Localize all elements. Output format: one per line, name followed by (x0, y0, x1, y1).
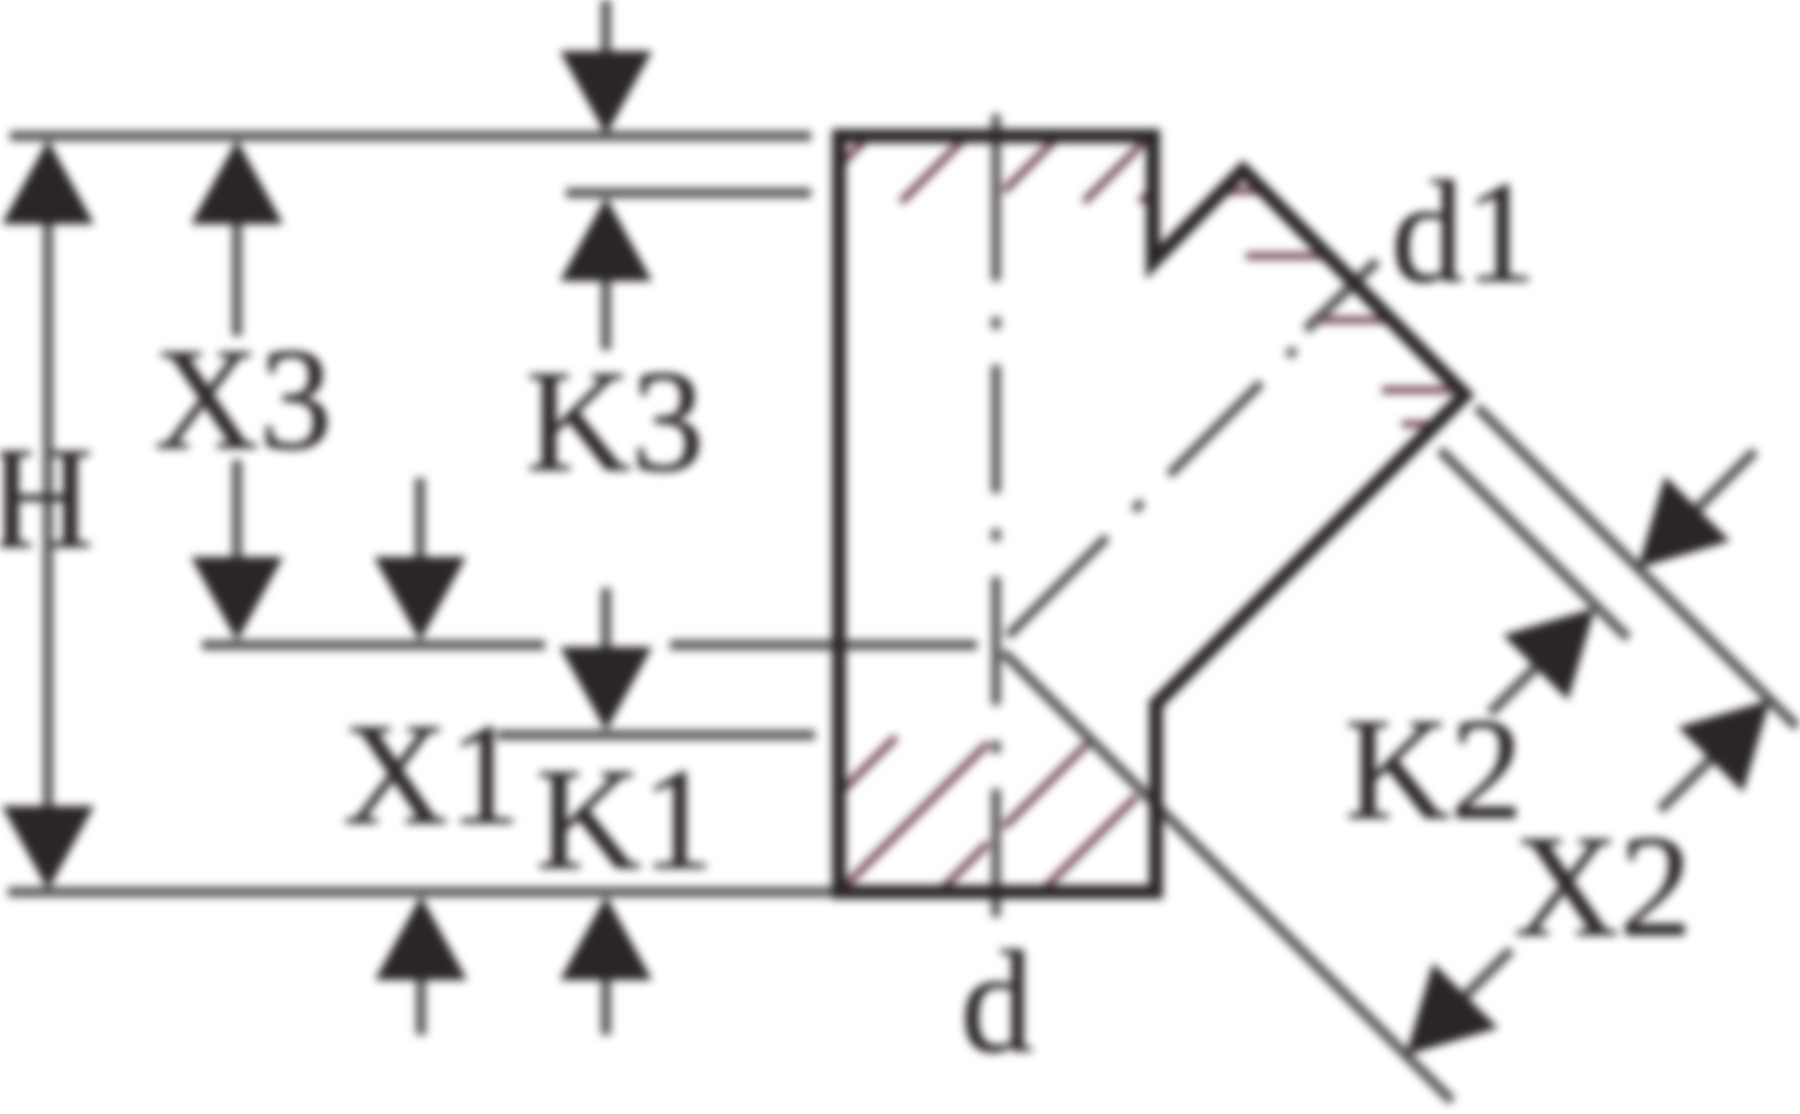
svg-text:K3: K3 (526, 340, 704, 502)
svg-text:X2: X2 (1514, 805, 1692, 967)
svg-text:X1: X1 (343, 693, 521, 855)
svg-text:H: H (0, 417, 94, 579)
svg-text:K2: K2 (1345, 688, 1523, 850)
svg-text:X3: X3 (154, 318, 332, 480)
svg-text:d: d (961, 921, 1034, 1083)
svg-text:d1: d1 (1391, 151, 1537, 313)
svg-text:K1: K1 (536, 738, 714, 900)
